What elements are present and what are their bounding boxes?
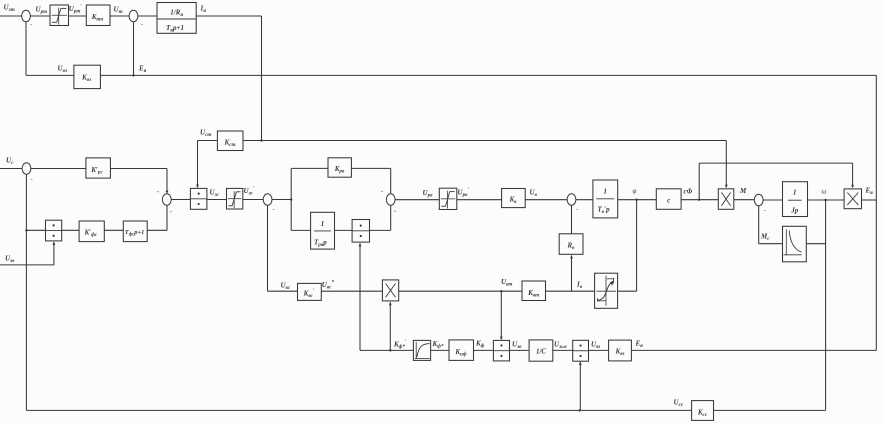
block armature 1/Rя over Tяp+1 <box>157 3 196 34</box>
label Uрт' <box>69 4 83 15</box>
block Kоз (EMF compensation gain) <box>74 65 101 88</box>
multiplier block X2 (EMF) <box>844 189 861 209</box>
svg-text:Iв: Iв <box>576 281 583 291</box>
wire Kвт to magnetization block <box>546 290 595 292</box>
node junction Iя to torque row <box>260 139 262 141</box>
svg-text:Uзв: Uзв <box>5 255 15 265</box>
wire cΦ down into X2 with arrow <box>851 163 854 188</box>
wire to Kрв <box>291 167 328 169</box>
sign + at S6 lower right <box>394 209 397 215</box>
svg-text:Uвс*: Uвс* <box>322 279 335 291</box>
svg-text:Uрв′: Uрв′ <box>458 187 470 198</box>
svg-text:Uоз: Uоз <box>58 65 68 75</box>
wire integrator to divider D3 <box>335 229 353 231</box>
block 1/C <box>529 340 553 361</box>
nonlinear limiter block A3 <box>439 188 457 209</box>
svg-text:Uзв: Uзв <box>512 341 522 351</box>
node Uзт input wire <box>0 15 22 17</box>
label cΦ <box>684 188 693 196</box>
wire Kв to S7 <box>525 199 567 201</box>
block flux curve Kф <box>413 340 430 360</box>
svg-text:Kиф: Kиф <box>454 348 467 358</box>
svg-text:Uст: Uст <box>200 129 211 139</box>
label M (torque) <box>739 187 747 195</box>
wire EMF line left segment <box>26 74 74 76</box>
block K'фс <box>79 221 104 242</box>
label Uст <box>200 129 211 139</box>
svg-text:cΦ: cΦ <box>684 188 693 196</box>
wire cΦ up <box>698 163 700 200</box>
svg-text:1/Rя: 1/Rя <box>170 9 183 19</box>
label Eя on EMF line <box>138 65 147 75</box>
wire row to Kвс' <box>268 290 298 292</box>
divider block D4 (division) <box>493 340 509 361</box>
divider block D3 (division) <box>352 220 369 243</box>
node PI split junction <box>290 198 292 200</box>
wire A3 to Kв <box>457 199 502 201</box>
svg-text:+: + <box>381 189 384 195</box>
label Uзωс <box>554 341 568 351</box>
label Uт <box>114 6 123 16</box>
sign - at S3 lower input <box>31 177 33 184</box>
summing junction S8 (mechanical) <box>754 194 763 205</box>
wire 1/C to D5 <box>553 349 573 351</box>
block Rв (field resistance) <box>559 234 583 255</box>
svg-text:Uзωс: Uзωс <box>554 341 568 351</box>
block Kст <box>217 131 243 151</box>
multiplier block X1 (torque) <box>718 189 734 210</box>
label φ (flux) <box>633 187 637 195</box>
summing junction S6 <box>386 194 395 205</box>
block K'рс (speed regulator) <box>86 158 111 178</box>
summing junction S3 (speed error) <box>22 163 31 174</box>
wire S4 to divider D2 <box>171 199 190 201</box>
wire cΦ across top <box>699 162 852 164</box>
label ω (speed) <box>822 188 827 196</box>
label Eя at X2 output <box>865 187 874 197</box>
label Kф* <box>432 340 444 350</box>
wire K'рс output right <box>110 168 167 170</box>
wire S3 feedback vertical (speed feedback) <box>25 174 27 410</box>
svg-text:Tяp+1: Tяp+1 <box>166 24 184 34</box>
wire D3 right then up into S6 <box>370 205 391 230</box>
svg-text:-: - <box>141 22 143 29</box>
wire PI vertical <box>290 168 292 230</box>
svg-text:+: + <box>157 190 160 196</box>
label Uрт <box>36 6 48 16</box>
wire Tфс block right then up into S4 <box>147 205 167 230</box>
svg-text:Kст: Kст <box>223 139 235 149</box>
wire EMF line long segment <box>100 74 876 76</box>
wire S2 to armature block <box>138 15 157 17</box>
svg-text:1/C: 1/C <box>536 348 546 356</box>
sign + at S6 upper left <box>381 189 384 195</box>
svg-text:Uвт: Uвт <box>501 278 512 288</box>
node ω junction <box>824 199 826 201</box>
block integrator 1/Tрвp <box>311 212 335 249</box>
wire Mc to ω vertical <box>806 243 825 245</box>
wire right vertical (Eя distribution) <box>875 75 877 350</box>
svg-text:-: - <box>273 207 275 214</box>
summing junction S1 (current regulator input) <box>22 10 31 21</box>
block Kвз (EMF sensor gain) <box>609 340 632 361</box>
svg-text:Uрв: Uрв <box>423 189 434 199</box>
wire bottom row left segment <box>360 349 413 351</box>
svg-text:Uзс′: Uзс′ <box>244 186 255 197</box>
block Kсс (speed sensor gain) <box>692 401 714 421</box>
block Tфсp+1 (filter) <box>123 221 147 242</box>
svg-text:Kф: Kф <box>475 340 485 350</box>
svg-text:φ: φ <box>633 187 637 195</box>
label Iя (armature current) <box>200 5 207 15</box>
nonlinear limiter block A2 <box>227 188 243 209</box>
wire to divider D1 input <box>26 229 45 231</box>
label Uзт <box>4 4 15 14</box>
sign + at S4 upper left <box>157 190 160 196</box>
divider block D1 (division) <box>46 220 62 241</box>
summing junction S2 (armature EMF node) <box>129 10 138 21</box>
wire K'фс to Tфс block <box>104 229 123 231</box>
label Uвс <box>281 282 291 292</box>
wire S8 to 1/Jp <box>763 199 782 201</box>
wire Iя output to corner <box>196 15 261 17</box>
svg-text:+: + <box>170 210 173 216</box>
wire torque row horizontal <box>243 140 726 142</box>
wire S8 bottom down <box>758 206 760 244</box>
svg-text:Kсс: Kсс <box>697 409 708 419</box>
block Mc (load torque curve) <box>783 226 807 261</box>
node flux junction <box>635 199 637 201</box>
wire Kтп to S2 <box>110 15 129 17</box>
svg-text:Tрвp: Tрвp <box>314 239 327 249</box>
wire Kвс' to X3 <box>321 290 382 292</box>
label Uвз <box>591 341 600 351</box>
wire S2 bottom to EMF line <box>133 22 135 76</box>
wire Kвз to right vertical <box>631 349 876 351</box>
label Uвс* <box>322 279 335 291</box>
wire S5 bottom down to EMF-feedback row <box>267 205 269 291</box>
label Uрв <box>423 189 434 199</box>
summing junction S7 (field circuit) <box>567 194 576 205</box>
svg-text:Uс: Uс <box>6 157 14 167</box>
sign - at S8 lower input <box>764 207 766 214</box>
wire Kст output down into divider D2 <box>196 141 199 189</box>
svg-text:Eя: Eя <box>138 65 147 75</box>
svg-text:Kтп: Kтп <box>91 13 104 23</box>
block Kрв (field regulator P part) <box>328 158 351 177</box>
label Uоз <box>58 65 68 75</box>
wire down into D4 with arrow <box>500 291 503 340</box>
nonlinear limiter block A1 (saturation) <box>50 5 69 26</box>
svg-text:K′рс: K′рс <box>90 166 103 176</box>
svg-text:ω: ω <box>822 188 827 196</box>
wire X3 to Kвт <box>399 290 522 292</box>
wire magnetization block to flux node <box>618 290 637 292</box>
svg-text:Kвс′: Kвс′ <box>303 288 315 299</box>
label Uзс <box>210 189 220 199</box>
svg-text:-: - <box>576 207 578 214</box>
svg-text:-: - <box>31 177 33 184</box>
svg-text:Uрт: Uрт <box>36 6 48 16</box>
svg-text:Kвт: Kвт <box>527 289 539 299</box>
label Uвт <box>501 278 512 288</box>
svg-text:Eя: Eя <box>635 340 644 350</box>
wire D5 to Kвз <box>589 349 609 351</box>
wire curve block to Kиф <box>431 349 449 351</box>
node junction to divider D1 <box>25 229 27 231</box>
label Eя on bottom row <box>635 340 644 350</box>
wire Uс input <box>0 168 22 170</box>
svg-text:c: c <box>667 197 670 205</box>
block Kвс' <box>298 283 322 300</box>
block 1/Jp (inertia) <box>783 182 808 217</box>
svg-text:1: 1 <box>793 189 797 197</box>
block field integrator 1/Tв'p <box>593 180 618 218</box>
svg-text:-: - <box>764 207 766 214</box>
svg-text:Rв: Rв <box>567 242 576 252</box>
svg-text:Kрв: Kрв <box>334 165 345 175</box>
sign - at S1 lower input <box>30 22 32 29</box>
node cΦ junction <box>698 199 700 201</box>
wire ω vertical down (speed feedback) <box>825 200 827 410</box>
svg-text:Uвс: Uвс <box>281 282 291 292</box>
wire S5 to PI node <box>272 199 291 201</box>
label Kф*' <box>393 339 407 350</box>
wire c to X1 <box>681 199 718 201</box>
node junction to Rв <box>570 255 573 291</box>
svg-text:1: 1 <box>321 220 325 228</box>
multiplier block X3 <box>382 280 398 301</box>
wire S1 to limiter A1 <box>30 15 50 17</box>
label Mc <box>760 233 770 243</box>
sign - at S2 lower input <box>141 22 143 29</box>
wire Iя vertical down to torque row <box>261 16 263 141</box>
wire PI lower branch to integrator <box>291 229 310 231</box>
svg-text:-: - <box>30 22 32 29</box>
svg-text:Uт: Uт <box>114 6 123 16</box>
label Iв (field current) <box>576 281 583 291</box>
wire A2 to S5 <box>243 199 263 201</box>
wire Kиф to D4 <box>474 349 494 351</box>
svg-text:Tфсp+1: Tфсp+1 <box>125 229 145 237</box>
wire Uзв up into D1 bottom with arrow <box>53 242 56 265</box>
svg-text:Uвз: Uвз <box>591 341 600 351</box>
wire Uзв input <box>0 264 54 266</box>
sign - at S7 lower input <box>576 207 578 214</box>
wire to Mc block <box>759 243 783 245</box>
block c (machine constant) <box>656 189 681 210</box>
wire S1 bottom to EMF line <box>25 22 27 76</box>
wire integrator to c block <box>618 199 657 201</box>
label Uв <box>530 189 538 199</box>
wire X2 output to right vertical <box>862 199 877 201</box>
label Uзс' <box>244 186 255 197</box>
label Uрв' <box>458 187 470 198</box>
label Uсс <box>674 399 684 409</box>
wire D3 bottom down with arrow <box>359 243 362 350</box>
svg-text:1: 1 <box>604 188 608 196</box>
node junction to divider D4 <box>500 290 502 292</box>
wire up into X3 with arrow <box>389 302 392 351</box>
block magnetization curve Φ(Iв) <box>595 273 618 308</box>
svg-text:Tв′p: Tв′p <box>598 206 611 216</box>
svg-text:Kф*: Kф* <box>432 340 444 350</box>
sign - at S5 lower input <box>273 207 275 214</box>
block Kв (field converter gain) <box>502 189 526 208</box>
summing junction S5 <box>263 194 272 205</box>
svg-text:Jp: Jp <box>790 207 799 215</box>
svg-text:Uсс: Uсс <box>674 399 684 409</box>
wire Iя down into X1 with arrow <box>725 141 728 189</box>
wire Kст output left <box>198 140 218 142</box>
wire X1 to S8 <box>734 199 755 201</box>
block Kиф <box>449 340 474 361</box>
wire Rв to S7 minus <box>571 205 573 234</box>
label Uзв <box>5 255 15 265</box>
wire 1/Jp to X2 <box>808 199 845 201</box>
wire D1 to K'фс <box>62 229 79 231</box>
svg-text:Eя: Eя <box>865 187 874 197</box>
svg-text:Uзс: Uзс <box>210 189 220 199</box>
svg-text:Kв: Kв <box>509 196 518 206</box>
svg-text:Uв: Uв <box>530 189 538 199</box>
wire S6 to limiter A3 <box>395 199 439 201</box>
label Uс <box>6 157 14 167</box>
wire bottom feedback line <box>26 409 691 411</box>
svg-text:Kоз: Kоз <box>81 74 91 84</box>
wire flux vertical <box>636 200 638 292</box>
wire up into D5 with arrow <box>579 362 582 411</box>
sign + at S4 lower right <box>170 210 173 216</box>
label Kф <box>475 340 485 350</box>
divider block D2 (division) <box>190 188 207 209</box>
svg-text:Kф*′: Kф*′ <box>393 339 407 350</box>
svg-text:+: + <box>394 209 397 215</box>
svg-text:Uрт′: Uрт′ <box>69 4 83 15</box>
wire Kрв to corner into S6 <box>351 168 390 193</box>
wire Kсс input from ω vertical <box>714 409 826 411</box>
svg-text:Mс: Mс <box>760 233 770 243</box>
block Kвт <box>522 281 546 301</box>
wire down into S4 with arrow <box>166 169 169 195</box>
wire S3 to K'рс <box>31 168 86 170</box>
svg-text:Iя: Iя <box>200 5 207 15</box>
node junction on EMF line <box>132 74 134 76</box>
svg-text:K′фс: K′фс <box>83 229 97 239</box>
svg-text:M: M <box>739 187 747 195</box>
wire A1 to Kтп <box>69 15 87 17</box>
label Uзв' <box>512 341 522 351</box>
svg-text:Uзт: Uзт <box>4 4 15 14</box>
svg-text:Kвз: Kвз <box>615 348 625 358</box>
wire D4 to 1/C <box>510 349 530 351</box>
summing junction S4 <box>162 194 171 205</box>
node junction to X3 <box>389 349 391 351</box>
block Kтп (thyristor converter gain) <box>86 5 110 26</box>
wire D2 to limiter A2 <box>207 199 227 201</box>
divider block D5 (division) <box>573 340 589 361</box>
node junction to D5 <box>578 409 580 411</box>
wire S7 to field integrator <box>576 199 593 201</box>
